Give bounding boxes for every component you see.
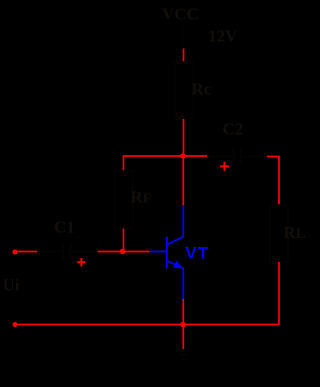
wire collector node to Rf bbox=[124, 156, 184, 171]
svg-text:Rc: Rc bbox=[192, 80, 212, 99]
svg-text:12V: 12V bbox=[208, 27, 238, 46]
ground bbox=[174, 350, 193, 359]
resistor RL bbox=[270, 205, 288, 262]
wire Rc to collector node bbox=[183, 119, 185, 156]
input terminal Ui bbox=[13, 250, 18, 255]
svg-text:Ui: Ui bbox=[3, 276, 20, 295]
capacitor C2 bbox=[207, 149, 267, 165]
polarity plus of C1 bbox=[77, 258, 85, 267]
capacitor C1 bbox=[37, 244, 98, 260]
svg-text:C2: C2 bbox=[223, 120, 244, 139]
wire emitter to rail bbox=[182, 299, 184, 325]
resistor Rc bbox=[175, 62, 193, 119]
VCC terminal lead bbox=[183, 24, 185, 49]
wire RL to ground rail bbox=[278, 262, 280, 325]
resistor Rf bbox=[115, 171, 133, 229]
rail left terminal bbox=[13, 322, 18, 327]
wire Rf to base node bbox=[123, 229, 125, 252]
ground rail bbox=[15, 324, 279, 326]
wire VCC to Rc bbox=[183, 49, 185, 63]
wire to ground symbol bbox=[182, 325, 184, 350]
wire C1 to base bbox=[98, 251, 150, 253]
transistor VT bbox=[149, 205, 183, 299]
svg-text:VCC: VCC bbox=[162, 5, 199, 24]
svg-text:VT: VT bbox=[185, 243, 209, 262]
svg-text:C1: C1 bbox=[54, 218, 75, 237]
wire input to C1 bbox=[15, 251, 37, 253]
svg-text:RL: RL bbox=[284, 223, 306, 242]
node emitter ground junction bbox=[180, 322, 185, 327]
wire collector node to C2 bbox=[183, 155, 207, 157]
wire C2 to RL bbox=[267, 157, 279, 206]
wire collector node to transistor collector bbox=[182, 156, 184, 205]
node base junction bbox=[120, 249, 125, 254]
node collector junction bbox=[180, 153, 185, 158]
polarity plus of C2 bbox=[220, 162, 229, 171]
